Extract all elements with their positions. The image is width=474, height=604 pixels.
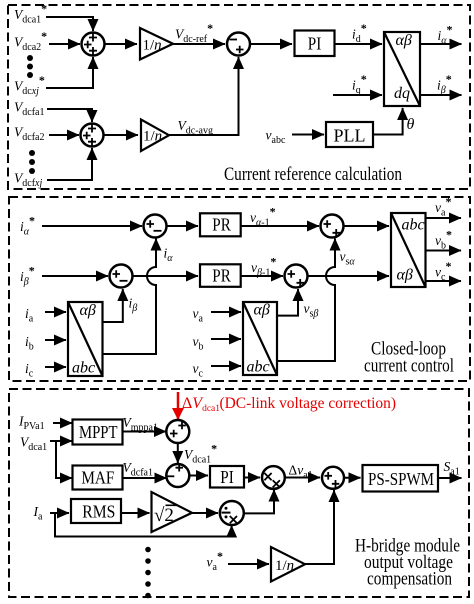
wire S3 to gain 1/n (bottom) bbox=[103, 134, 138, 136]
svg-text:abc: abc bbox=[247, 359, 270, 376]
divider D1 bbox=[220, 501, 244, 525]
summer J3 bbox=[144, 215, 167, 238]
svg-text:Vdcfa1: Vdcfa1 bbox=[123, 460, 153, 479]
gain triangle 1/n (top) bbox=[140, 28, 173, 60]
multiplier M1 bbox=[262, 466, 285, 489]
svg-text:vb*: vb* bbox=[435, 227, 452, 251]
svg-text:ic: ic bbox=[25, 361, 34, 380]
wire vb* out bbox=[426, 250, 462, 252]
svg-text:Vdca1*: Vdca1* bbox=[184, 442, 217, 466]
block PLL bbox=[326, 122, 373, 147]
svg-text:ΔVdca1: ΔVdca1 bbox=[182, 395, 220, 414]
svg-text:IPVa1: IPVa1 bbox=[18, 414, 45, 433]
transform block alphabeta/dq bbox=[384, 32, 420, 106]
wire i-alpha* to summer J3 bbox=[42, 225, 142, 227]
wire PI2 to multiplier M1 bbox=[244, 477, 260, 479]
svg-text:αβ: αβ bbox=[80, 302, 96, 319]
svg-text:iα*: iα* bbox=[438, 23, 453, 47]
svg-text:abc: abc bbox=[72, 360, 95, 377]
svg-text:id*: id* bbox=[352, 21, 367, 45]
wire Ia to RMS and branch down to divider bottom bbox=[50, 512, 69, 514]
svg-text:iα*: iα* bbox=[20, 214, 35, 238]
wire Vdca1 to MPPT and branch to MAF bbox=[50, 440, 72, 442]
svg-text:vabc: vabc bbox=[266, 128, 286, 147]
wire Vdcfxj to summer S3 bottom bbox=[47, 148, 92, 180]
summer J5 bbox=[321, 215, 344, 238]
summer J6 bbox=[285, 265, 308, 288]
svg-text:ia: ia bbox=[25, 306, 34, 325]
svg-text:vβ-1*: vβ-1* bbox=[251, 254, 276, 278]
transform block B alphabeta/abc (voltages) bbox=[243, 302, 277, 376]
wire vabc to PLL bbox=[292, 134, 324, 136]
svg-text:Vdc-ref*: Vdc-ref* bbox=[175, 21, 213, 45]
svg-text:va: va bbox=[193, 306, 204, 325]
svg-text:iβ: iβ bbox=[129, 296, 138, 315]
wire PLL to dq block bottom (theta) bbox=[373, 108, 403, 135]
wire ia to transform A bbox=[45, 311, 66, 313]
svg-text:vα-1*: vα-1* bbox=[250, 204, 276, 228]
dashed frame: H-bridge module output voltage compensation bbox=[9, 389, 469, 597]
svg-text:MAF: MAF bbox=[81, 468, 114, 488]
svg-text:Vdcfa1: Vdcfa1 bbox=[14, 100, 44, 119]
svg-text:PR: PR bbox=[212, 215, 231, 235]
dots ellipsis top-left bbox=[27, 55, 33, 61]
gain triangle 1/n (second) bbox=[141, 120, 169, 152]
dots ellipsis mid-left bbox=[29, 150, 35, 156]
dashed frame: Closed-loop current control bbox=[9, 197, 470, 381]
svg-text:Sa1: Sa1 bbox=[444, 459, 460, 478]
svg-text:Vdcfxj: Vdcfxj bbox=[14, 171, 42, 190]
wire i-beta* to summer J4 bbox=[42, 275, 108, 277]
block PR2 bbox=[200, 264, 241, 287]
wire J4 to PR2 bbox=[132, 275, 198, 277]
summer J8 bbox=[166, 464, 189, 487]
wire M1 to summer J9 bbox=[285, 477, 320, 479]
svg-text:√2: √2 bbox=[154, 505, 174, 526]
wire Vdcfa2 to summer S3 left bbox=[49, 134, 79, 136]
red correction arrow into J7 bbox=[177, 392, 180, 419]
summer S1 bbox=[82, 33, 105, 56]
wire RMS to sqrt2 gain bbox=[121, 512, 150, 514]
svg-text:vc: vc bbox=[193, 361, 204, 380]
transform block C abc/alphabeta (output) bbox=[391, 213, 426, 287]
wire iq to alphabeta-dq block bbox=[333, 94, 382, 96]
svg-text:abc: abc bbox=[402, 217, 425, 234]
wire J9 to PS-SPWM bbox=[344, 477, 361, 479]
wire Vdc-avg to S2 bottom bbox=[169, 57, 239, 135]
wire J8 to PI2 bbox=[189, 475, 208, 477]
svg-text:iβ*: iβ* bbox=[20, 264, 35, 288]
svg-text:vsα: vsα bbox=[340, 249, 356, 268]
svg-text:vc*: vc* bbox=[435, 259, 451, 283]
svg-text:Vdca1*: Vdca1* bbox=[14, 2, 47, 26]
svg-text:Vdca1: Vdca1 bbox=[20, 435, 47, 454]
svg-text:(DC-link voltage correction): (DC-link voltage correction) bbox=[220, 395, 397, 412]
svg-text:current control: current control bbox=[364, 356, 454, 377]
svg-text:ib: ib bbox=[25, 334, 34, 353]
wire va to transform B bbox=[211, 311, 241, 313]
svg-text:PR: PR bbox=[212, 266, 231, 286]
wire J3 to PR1 bbox=[166, 225, 198, 227]
wire J7 to summer J8, node Vdca1* bbox=[177, 443, 179, 464]
wire D1 to M1 bottom bbox=[243, 490, 274, 514]
svg-text:va*: va* bbox=[435, 195, 451, 219]
svg-text:iβ*: iβ* bbox=[437, 72, 452, 96]
wire 1/n to summer S2 bbox=[173, 43, 225, 45]
wire ib to transform A bbox=[45, 339, 66, 341]
wire sqrt2 to divider D1 bbox=[192, 512, 218, 514]
wire vc to transform B bbox=[211, 365, 241, 367]
wire i-alpha* out bbox=[420, 43, 462, 45]
block MPPT bbox=[73, 420, 123, 445]
dashed frame: Current reference calculation bbox=[8, 5, 470, 189]
wire Vdcfa1 to summer S3 top bbox=[47, 109, 92, 122]
wire IPVa1 to MPPT bbox=[53, 422, 72, 424]
svg-text:va*: va* bbox=[207, 549, 223, 573]
wire S1 to gain 1/n bbox=[104, 43, 137, 45]
wire J6 to abc block (passes under vsa hop) bbox=[307, 275, 389, 277]
svg-text:1/n: 1/n bbox=[143, 38, 162, 54]
svg-text:Vdc-avg: Vdc-avg bbox=[178, 118, 213, 137]
wire vc* out bbox=[426, 280, 462, 282]
svg-text:αβ: αβ bbox=[397, 267, 413, 284]
svg-text:Vdca2*: Vdca2* bbox=[14, 29, 47, 53]
wire v-s-beta from B to J6 bottom bbox=[277, 289, 298, 316]
svg-text:1/n: 1/n bbox=[275, 558, 294, 574]
svg-text:PI: PI bbox=[308, 33, 322, 53]
block PI (section 1) bbox=[295, 31, 335, 57]
svg-text:iq*: iq* bbox=[352, 72, 367, 96]
svg-text:αβ: αβ bbox=[254, 302, 270, 319]
dots ellipsis bottom bbox=[145, 547, 151, 553]
wire i-beta* out bbox=[420, 94, 462, 96]
wire PR2 to summer J6 bbox=[241, 275, 283, 277]
wire Vdca1 to summer S1 top bbox=[46, 17, 93, 31]
svg-text:θ: θ bbox=[407, 116, 415, 133]
wire Vdca2 to summer S1 left bbox=[49, 43, 80, 45]
svg-text:Vdcfa2: Vdcfa2 bbox=[14, 125, 44, 144]
wire ic to transform A bbox=[45, 366, 66, 368]
svg-text:Current reference calculation: Current reference calculation bbox=[224, 164, 402, 185]
wire MPPT to summer J7 bbox=[123, 431, 167, 433]
block MAF bbox=[73, 466, 123, 490]
wire Vdcxj to summer S1 bottom bbox=[46, 57, 93, 88]
svg-text:RMS: RMS bbox=[82, 502, 115, 522]
wire i-alpha from A to J3 bottom with hop bbox=[103, 239, 157, 355]
svg-text:vsβ: vsβ bbox=[304, 301, 319, 320]
svg-text:iα: iα bbox=[164, 246, 174, 265]
wire J5 to abc block bbox=[343, 225, 389, 227]
wire v-s-alpha from B to J5 bottom with hop bbox=[277, 239, 335, 362]
svg-text:dq: dq bbox=[394, 85, 410, 102]
wire i-beta from A to J4 bottom bbox=[103, 289, 123, 322]
summer J4 bbox=[110, 265, 133, 288]
svg-text:Ia: Ia bbox=[33, 504, 44, 523]
svg-text:vb: vb bbox=[193, 334, 204, 353]
summer S3 bbox=[81, 124, 104, 147]
svg-text:PLL: PLL bbox=[334, 126, 366, 146]
wire PR1 to summer J5 bbox=[241, 225, 319, 227]
svg-text:αβ: αβ bbox=[396, 32, 412, 49]
svg-text:PI: PI bbox=[220, 467, 234, 487]
svg-text:PS-SPWM: PS-SPWM bbox=[368, 469, 434, 489]
summer S2 bbox=[227, 33, 250, 56]
svg-text:1/n: 1/n bbox=[143, 129, 162, 145]
wire MAF to summer J8 bbox=[123, 477, 167, 479]
transform block A alphabeta/abc (currents) bbox=[68, 302, 103, 377]
block PR1 bbox=[200, 213, 241, 236]
wire PI to alphabeta-dq block bbox=[335, 43, 383, 45]
wire va* out bbox=[426, 217, 462, 219]
wire S2 to PI bbox=[250, 43, 293, 45]
block RMS bbox=[71, 499, 121, 523]
wire vb to transform B bbox=[211, 338, 241, 340]
summer J9 bbox=[322, 467, 344, 489]
gain triangle sqrt2 bbox=[152, 492, 193, 532]
svg-text:MPPT: MPPT bbox=[79, 422, 118, 442]
gain triangle 1/n (third) bbox=[271, 547, 305, 582]
block PS-SPWM bbox=[363, 465, 439, 492]
summer J7 bbox=[166, 420, 189, 443]
wire va* to 1/n gain bbox=[228, 563, 269, 565]
wire 1/n to J9 bottom bbox=[305, 490, 334, 564]
wire Sa1 out bbox=[438, 477, 462, 479]
block PI (section 3) bbox=[210, 466, 244, 488]
svg-text:compensation: compensation bbox=[367, 569, 452, 590]
